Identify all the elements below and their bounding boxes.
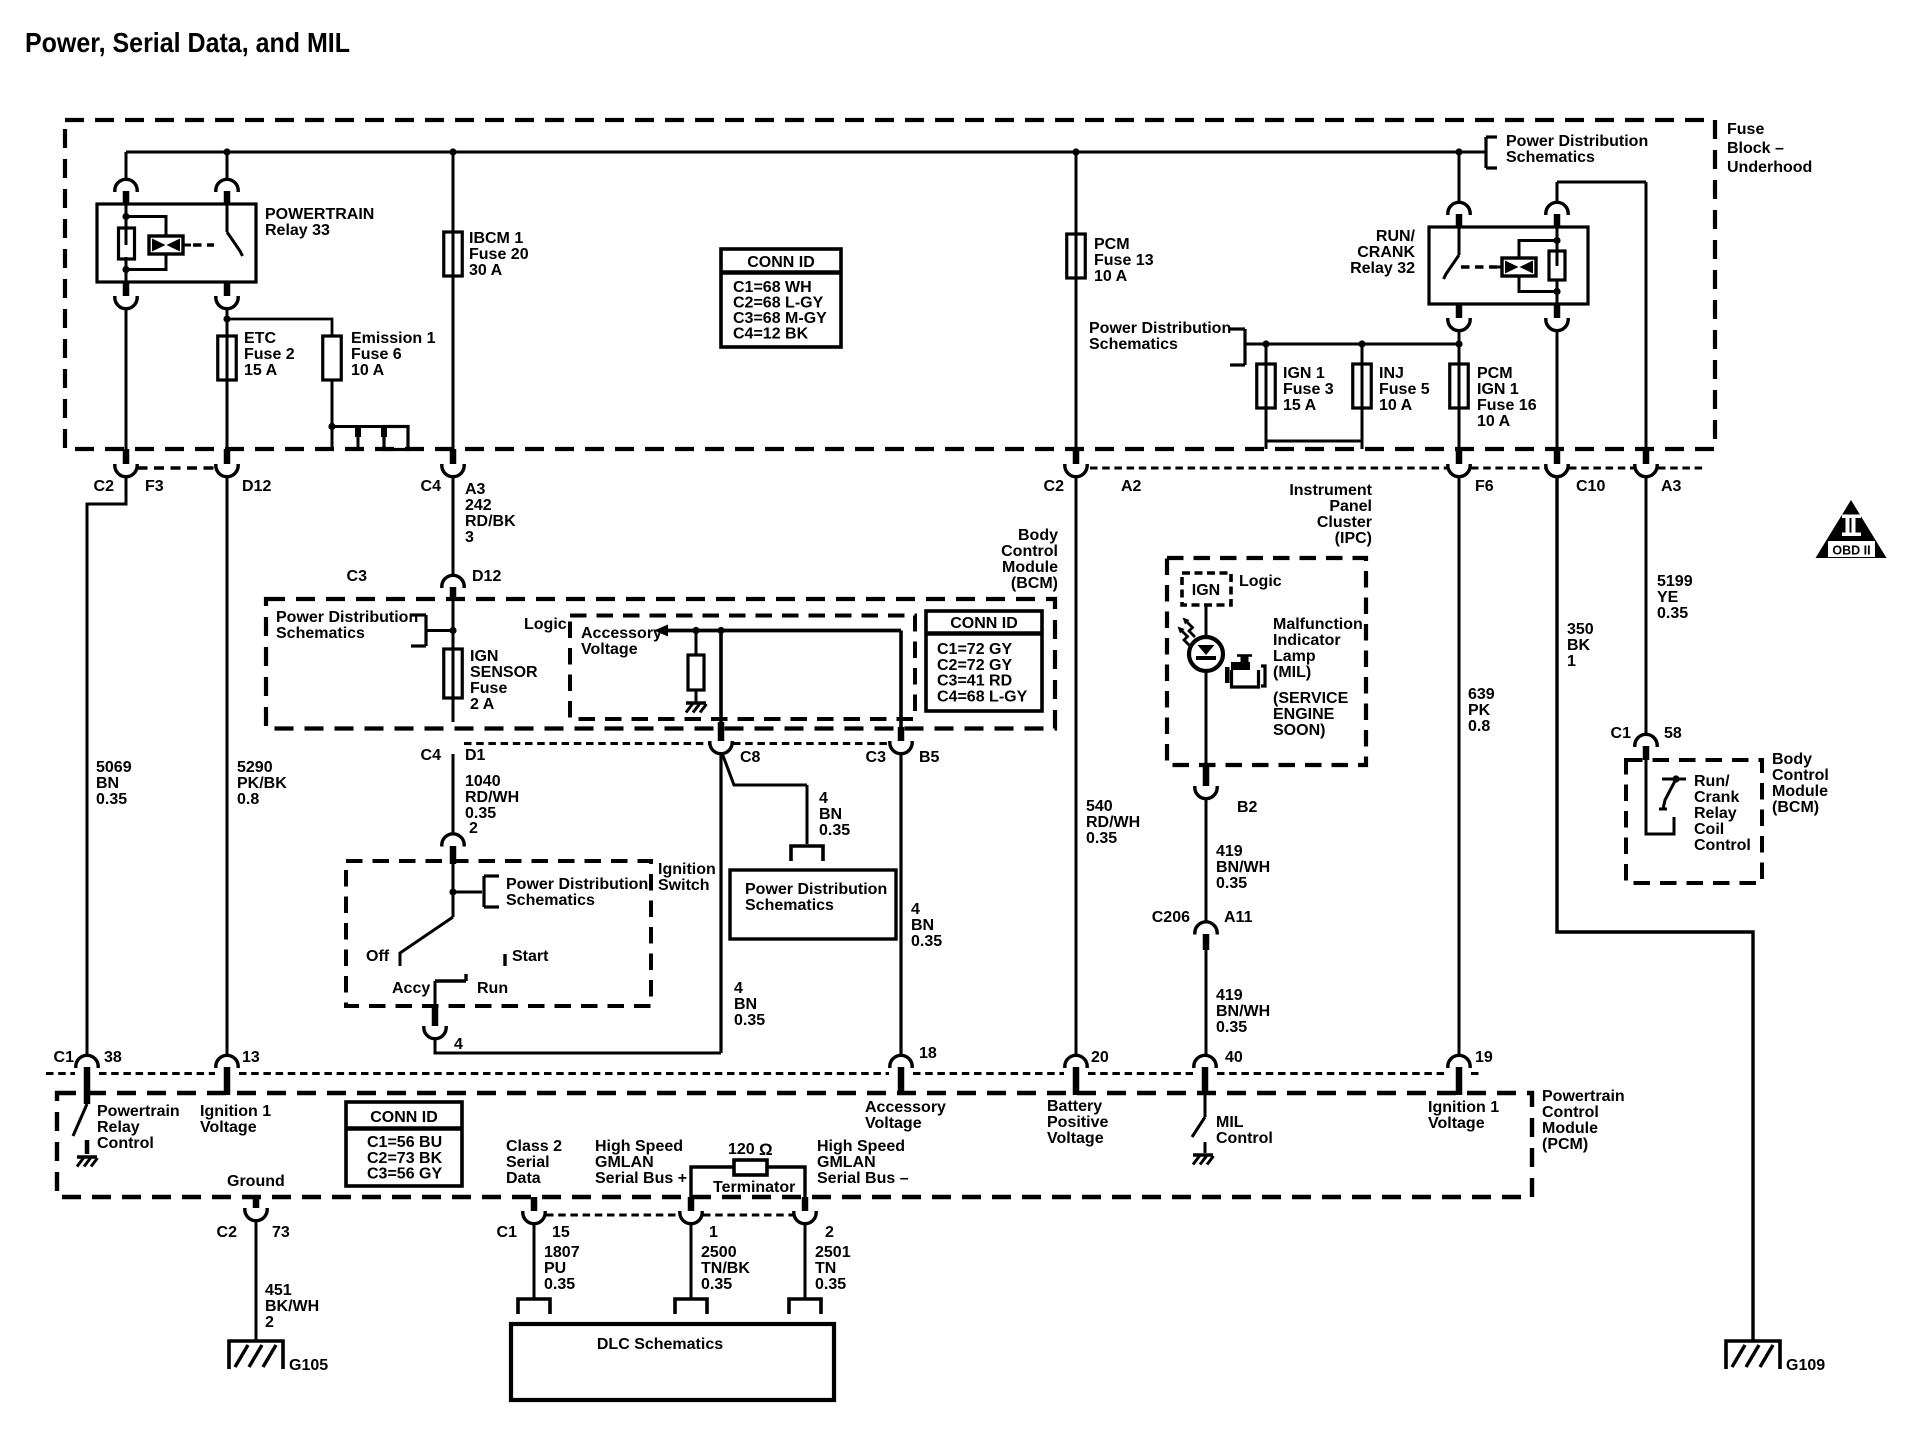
svg-text:Schematics: Schematics — [276, 625, 365, 642]
svg-text:C4: C4 — [421, 478, 442, 495]
svg-text:Malfunction: Malfunction — [1273, 616, 1363, 633]
svg-text:3: 3 — [465, 529, 474, 546]
svg-text:Control: Control — [97, 1135, 154, 1152]
svg-text:Fuse 3: Fuse 3 — [1283, 381, 1334, 398]
svg-text:ENGINE: ENGINE — [1273, 706, 1335, 723]
svg-text:Control: Control — [1694, 837, 1751, 854]
svg-text:Block –: Block – — [1727, 140, 1784, 157]
svg-text:BK: BK — [1567, 637, 1591, 654]
svg-text:C10: C10 — [1576, 478, 1605, 495]
svg-text:C2=68 L-GY: C2=68 L-GY — [733, 295, 824, 312]
svg-text:RUN/: RUN/ — [1376, 228, 1416, 245]
svg-text:4: 4 — [734, 980, 743, 997]
svg-text:Fuse 20: Fuse 20 — [469, 246, 529, 263]
svg-text:2: 2 — [825, 1224, 834, 1241]
svg-text:Power Distribution: Power Distribution — [506, 876, 648, 893]
svg-text:Control: Control — [1772, 767, 1829, 784]
svg-text:(BCM): (BCM) — [1011, 575, 1058, 592]
svg-text:G105: G105 — [289, 1357, 328, 1374]
svg-text:Crank: Crank — [1694, 789, 1739, 806]
svg-text:Schematics: Schematics — [506, 892, 595, 909]
svg-text:Accessory: Accessory — [581, 625, 662, 642]
svg-text:C1=72 GY: C1=72 GY — [937, 641, 1012, 658]
svg-text:C1: C1 — [1611, 725, 1632, 742]
svg-text:Fuse 2: Fuse 2 — [244, 346, 295, 363]
svg-text:DLC Schematics: DLC Schematics — [597, 1336, 723, 1353]
svg-text:Schematics: Schematics — [745, 897, 834, 914]
svg-text:ETC: ETC — [244, 330, 276, 347]
svg-text:A3: A3 — [465, 481, 486, 498]
svg-text:D1: D1 — [465, 747, 486, 764]
svg-text:Powertrain: Powertrain — [97, 1103, 180, 1120]
svg-text:C1=68 WH: C1=68 WH — [733, 279, 812, 296]
svg-text:Schematics: Schematics — [1506, 149, 1595, 166]
svg-text:5290: 5290 — [237, 759, 273, 776]
svg-text:B2: B2 — [1237, 799, 1258, 816]
svg-text:C2: C2 — [1044, 478, 1065, 495]
svg-text:Class 2: Class 2 — [506, 1138, 562, 1155]
svg-text:D12: D12 — [242, 478, 271, 495]
svg-text:242: 242 — [465, 497, 492, 514]
svg-text:Power Distribution: Power Distribution — [1506, 133, 1648, 150]
svg-text:Voltage: Voltage — [1428, 1115, 1485, 1132]
svg-text:CONN ID: CONN ID — [370, 1109, 438, 1126]
svg-text:0.35: 0.35 — [1216, 1019, 1247, 1036]
svg-text:BN/WH: BN/WH — [1216, 859, 1270, 876]
svg-text:MIL: MIL — [1216, 1114, 1244, 1131]
svg-text:BN: BN — [96, 775, 119, 792]
svg-text:Instrument: Instrument — [1289, 482, 1372, 499]
svg-text:Data: Data — [506, 1170, 541, 1187]
svg-text:Run/: Run/ — [1694, 773, 1730, 790]
svg-text:BN/WH: BN/WH — [1216, 1003, 1270, 1020]
svg-text:Run: Run — [477, 980, 508, 997]
svg-text:20: 20 — [1091, 1049, 1109, 1066]
svg-text:Voltage: Voltage — [581, 641, 638, 658]
svg-text:120: 120 — [728, 1141, 755, 1158]
svg-text:0.8: 0.8 — [237, 791, 259, 808]
svg-text:4: 4 — [819, 790, 828, 807]
svg-text:0.35: 0.35 — [701, 1276, 732, 1293]
svg-text:Module: Module — [1542, 1120, 1598, 1137]
svg-text:C206: C206 — [1152, 909, 1190, 926]
svg-text:Relay 33: Relay 33 — [265, 222, 330, 239]
svg-text:GMLAN: GMLAN — [817, 1154, 876, 1171]
svg-text:TN: TN — [815, 1260, 836, 1277]
svg-text:1: 1 — [1567, 653, 1576, 670]
svg-text:2501: 2501 — [815, 1244, 851, 1261]
svg-text:IGN: IGN — [1192, 582, 1220, 599]
svg-text:Ω: Ω — [759, 1140, 773, 1159]
svg-text:CRANK: CRANK — [1357, 244, 1415, 261]
svg-text:C3=56 GY: C3=56 GY — [367, 1166, 442, 1183]
svg-text:Fuse: Fuse — [470, 680, 507, 697]
svg-text:C3=68 M-GY: C3=68 M-GY — [733, 310, 827, 327]
svg-text:PU: PU — [544, 1260, 566, 1277]
svg-text:D12: D12 — [472, 568, 501, 585]
svg-text:0.35: 0.35 — [1086, 830, 1117, 847]
svg-text:Switch: Switch — [658, 877, 710, 894]
svg-text:Fuse: Fuse — [1727, 121, 1764, 138]
svg-text:Battery: Battery — [1047, 1098, 1102, 1115]
svg-text:0.35: 0.35 — [1216, 875, 1247, 892]
svg-text:BN: BN — [734, 996, 757, 1013]
svg-text:F6: F6 — [1475, 478, 1494, 495]
svg-text:Voltage: Voltage — [200, 1119, 257, 1136]
svg-text:15 A: 15 A — [244, 362, 278, 379]
svg-text:10 A: 10 A — [351, 362, 385, 379]
svg-text:40: 40 — [1225, 1049, 1243, 1066]
svg-text:13: 13 — [242, 1049, 260, 1066]
svg-text:PK: PK — [1468, 702, 1491, 719]
svg-text:F3: F3 — [145, 478, 164, 495]
svg-text:4: 4 — [454, 1036, 463, 1053]
svg-text:0.35: 0.35 — [815, 1276, 846, 1293]
svg-text:419: 419 — [1216, 987, 1243, 1004]
svg-text:CONN ID: CONN ID — [950, 615, 1018, 632]
svg-text:OBD II: OBD II — [1832, 544, 1870, 558]
svg-text:High Speed: High Speed — [817, 1138, 905, 1155]
svg-text:Relay 32: Relay 32 — [1350, 260, 1415, 277]
svg-text:POWERTRAIN: POWERTRAIN — [265, 206, 374, 223]
svg-text:A11: A11 — [1224, 909, 1253, 926]
svg-text:Power Distribution: Power Distribution — [1089, 320, 1231, 337]
svg-text:Panel: Panel — [1329, 498, 1372, 515]
svg-text:(IPC): (IPC) — [1335, 530, 1372, 547]
svg-text:Accessory: Accessory — [865, 1099, 946, 1116]
svg-text:Power Distribution: Power Distribution — [745, 881, 887, 898]
svg-text:GMLAN: GMLAN — [595, 1154, 654, 1171]
svg-text:Module: Module — [1002, 559, 1058, 576]
svg-text:C4: C4 — [421, 747, 442, 764]
svg-text:0.35: 0.35 — [734, 1012, 765, 1029]
svg-text:RD/BK: RD/BK — [465, 513, 516, 530]
svg-text:Control: Control — [1001, 543, 1058, 560]
svg-text:2: 2 — [265, 1314, 274, 1331]
svg-text:2500: 2500 — [701, 1244, 737, 1261]
svg-text:19: 19 — [1475, 1049, 1493, 1066]
svg-text:A3: A3 — [1661, 478, 1682, 495]
svg-text:Cluster: Cluster — [1317, 514, 1372, 531]
svg-text:C4=12 BK: C4=12 BK — [733, 326, 809, 343]
svg-text:C3: C3 — [866, 749, 887, 766]
svg-text:2: 2 — [469, 820, 478, 837]
svg-text:15: 15 — [552, 1224, 570, 1241]
svg-text:C3=41 RD: C3=41 RD — [937, 673, 1012, 690]
svg-text:Positive: Positive — [1047, 1114, 1108, 1131]
svg-text:Serial Bus –: Serial Bus – — [817, 1170, 909, 1187]
svg-text:(PCM): (PCM) — [1542, 1136, 1588, 1153]
svg-text:0.35: 0.35 — [911, 933, 942, 950]
svg-text:Serial Bus +: Serial Bus + — [595, 1170, 687, 1187]
svg-text:1807: 1807 — [544, 1244, 580, 1261]
svg-text:Body: Body — [1772, 751, 1812, 768]
svg-text:C2=72 GY: C2=72 GY — [937, 657, 1012, 674]
svg-text:10 A: 10 A — [1477, 413, 1511, 430]
svg-text:BN: BN — [819, 806, 842, 823]
svg-text:639: 639 — [1468, 686, 1495, 703]
svg-text:38: 38 — [104, 1049, 122, 1066]
svg-text:SENSOR: SENSOR — [470, 664, 538, 681]
svg-text:10 A: 10 A — [1379, 397, 1413, 414]
svg-text:540: 540 — [1086, 798, 1113, 815]
svg-text:C1: C1 — [54, 1049, 75, 1066]
svg-text:C3: C3 — [347, 568, 368, 585]
svg-text:1: 1 — [709, 1224, 718, 1241]
svg-text:C8: C8 — [740, 749, 761, 766]
svg-text:Logic: Logic — [524, 616, 567, 633]
svg-text:BK/WH: BK/WH — [265, 1298, 319, 1315]
svg-text:(SERVICE: (SERVICE — [1273, 690, 1349, 707]
svg-text:1040: 1040 — [465, 773, 501, 790]
svg-text:30 A: 30 A — [469, 262, 503, 279]
svg-text:Indicator: Indicator — [1273, 632, 1341, 649]
svg-text:RD/WH: RD/WH — [465, 789, 519, 806]
svg-text:YE: YE — [1657, 589, 1679, 606]
svg-text:PK/BK: PK/BK — [237, 775, 287, 792]
svg-text:PCM: PCM — [1094, 236, 1130, 253]
svg-text:0.35: 0.35 — [819, 822, 850, 839]
svg-text:IBCM 1: IBCM 1 — [469, 230, 523, 247]
svg-text:Control: Control — [1542, 1104, 1599, 1121]
svg-text:(MIL): (MIL) — [1273, 664, 1311, 681]
svg-text:Voltage: Voltage — [865, 1115, 922, 1132]
svg-text:Relay: Relay — [97, 1119, 140, 1136]
svg-text:58: 58 — [1664, 725, 1682, 742]
svg-text:Fuse 6: Fuse 6 — [351, 346, 402, 363]
svg-text:Power, Serial Data, and MIL: Power, Serial Data, and MIL — [25, 27, 350, 58]
svg-text:73: 73 — [272, 1224, 290, 1241]
svg-text:C2: C2 — [94, 478, 115, 495]
svg-text:Relay: Relay — [1694, 805, 1737, 822]
svg-text:Logic: Logic — [1239, 573, 1282, 590]
svg-text:350: 350 — [1567, 621, 1594, 638]
svg-text:IGN 1: IGN 1 — [1477, 381, 1519, 398]
svg-text:Power Distribution: Power Distribution — [276, 609, 418, 626]
svg-text:Start: Start — [512, 948, 549, 965]
svg-text:C2=73 BK: C2=73 BK — [367, 1150, 443, 1167]
svg-text:Fuse 13: Fuse 13 — [1094, 252, 1154, 269]
svg-text:C4=68 L-GY: C4=68 L-GY — [937, 688, 1028, 705]
svg-text:TN/BK: TN/BK — [701, 1260, 750, 1277]
svg-text:0.8: 0.8 — [1468, 718, 1490, 735]
svg-text:Off: Off — [366, 948, 390, 965]
svg-text:18: 18 — [919, 1045, 937, 1062]
svg-text:RD/WH: RD/WH — [1086, 814, 1140, 831]
svg-text:4: 4 — [911, 901, 920, 918]
svg-text:IGN: IGN — [470, 648, 498, 665]
svg-text:451: 451 — [265, 1282, 292, 1299]
svg-text:Emission 1: Emission 1 — [351, 330, 436, 347]
svg-text:B5: B5 — [919, 749, 940, 766]
svg-text:C2: C2 — [217, 1224, 238, 1241]
svg-text:Ignition 1: Ignition 1 — [200, 1103, 271, 1120]
svg-text:IGN 1: IGN 1 — [1283, 365, 1325, 382]
svg-text:CONN ID: CONN ID — [747, 254, 815, 271]
svg-text:Underhood: Underhood — [1727, 159, 1812, 176]
svg-text:PCM: PCM — [1477, 365, 1513, 382]
svg-text:0.35: 0.35 — [544, 1276, 575, 1293]
svg-text:Serial: Serial — [506, 1154, 550, 1171]
svg-text:10 A: 10 A — [1094, 268, 1128, 285]
svg-text:Fuse 5: Fuse 5 — [1379, 381, 1430, 398]
svg-text:Accy: Accy — [392, 980, 430, 997]
svg-text:Fuse 16: Fuse 16 — [1477, 397, 1537, 414]
svg-text:5199: 5199 — [1657, 573, 1693, 590]
svg-text:INJ: INJ — [1379, 365, 1404, 382]
svg-text:Ground: Ground — [227, 1173, 285, 1190]
svg-text:419: 419 — [1216, 843, 1243, 860]
svg-text:High Speed: High Speed — [595, 1138, 683, 1155]
svg-text:SOON): SOON) — [1273, 722, 1325, 739]
svg-text:Schematics: Schematics — [1089, 336, 1178, 353]
svg-text:BN: BN — [911, 917, 934, 934]
svg-text:C1=56 BU: C1=56 BU — [367, 1134, 442, 1151]
svg-text:Lamp: Lamp — [1273, 648, 1316, 665]
svg-text:(BCM): (BCM) — [1772, 799, 1819, 816]
svg-text:0.35: 0.35 — [1657, 605, 1688, 622]
svg-text:Ignition: Ignition — [658, 861, 716, 878]
svg-text:Voltage: Voltage — [1047, 1130, 1104, 1147]
svg-text:A2: A2 — [1121, 478, 1142, 495]
svg-text:Body: Body — [1018, 527, 1058, 544]
svg-text:0.35: 0.35 — [96, 791, 127, 808]
svg-text:Coil: Coil — [1694, 821, 1724, 838]
svg-text:Ignition 1: Ignition 1 — [1428, 1099, 1499, 1116]
svg-text:G109: G109 — [1786, 1357, 1825, 1374]
svg-text:Module: Module — [1772, 783, 1828, 800]
svg-text:Control: Control — [1216, 1130, 1273, 1147]
svg-text:Powertrain: Powertrain — [1542, 1088, 1625, 1105]
svg-text:Terminator: Terminator — [713, 1179, 795, 1196]
svg-text:15 A: 15 A — [1283, 397, 1317, 414]
svg-text:2 A: 2 A — [470, 696, 495, 713]
svg-text:5069: 5069 — [96, 759, 132, 776]
svg-text:C1: C1 — [497, 1224, 518, 1241]
